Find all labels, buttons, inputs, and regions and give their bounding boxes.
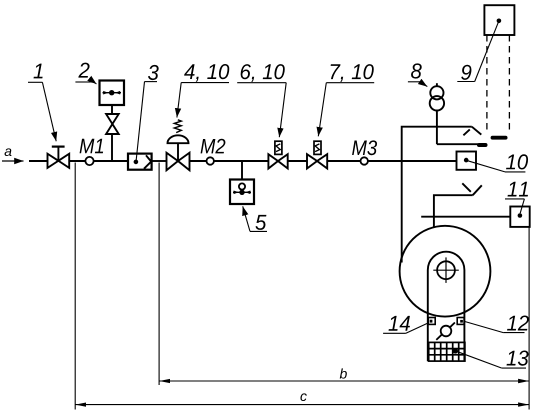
label 9 [461, 65, 471, 80]
extension line left c [74, 163, 76, 410]
wire main pipe segment 1 [29, 160, 48, 162]
flow arrow a [2, 160, 24, 162]
control box 11 [510, 207, 529, 227]
extension line right [528, 227, 530, 410]
label 5 [255, 215, 266, 230]
valve 1 [48, 147, 70, 168]
regulator valve 4 [167, 120, 190, 171]
wire igniter gas tube [437, 143, 478, 145]
node M3 [361, 157, 368, 164]
label 4, 10 [184, 64, 229, 82]
solenoid valve 7 [307, 141, 327, 168]
label M2 [201, 139, 226, 154]
label 6, 10 [241, 64, 285, 82]
label 7, 10 [331, 64, 374, 82]
wire valve to meter 2 [111, 105, 113, 114]
electrode block 12 [457, 318, 464, 325]
filter 3 [128, 154, 152, 170]
label 11 [508, 182, 528, 197]
label 3 [148, 65, 159, 80]
label a [5, 148, 12, 156]
igniter flame bend [472, 127, 482, 135]
wire main pipe segment 6 [327, 160, 456, 162]
label M3 [352, 140, 377, 155]
motor shaft crosshair [433, 257, 459, 283]
wire riser to igniter [402, 127, 472, 263]
burner tube [428, 252, 465, 362]
wire main pipe segment 2 [69, 160, 128, 162]
wire main pipe segment 4 [190, 160, 269, 162]
wire main pipe segment 3 [152, 160, 167, 162]
dimension c [75, 404, 529, 406]
igniter nozzle tip [479, 143, 486, 147]
meter U2 [100, 81, 125, 106]
igniter flame tick [463, 129, 469, 135]
label 12 [507, 315, 529, 330]
electrode tip [493, 136, 506, 140]
node M2 [207, 157, 214, 164]
node M1 [85, 157, 93, 165]
label 2 [78, 63, 89, 78]
label 8 [411, 63, 422, 78]
dimension b [159, 380, 529, 382]
wire high-voltage dashed leads [486, 35, 488, 134]
stabilizer grid 13 [429, 342, 465, 361]
valve under meter 2 [106, 114, 119, 134]
wire branch to meter 2 [111, 134, 113, 161]
extension line left b [158, 163, 160, 386]
fan scroll [400, 226, 491, 317]
label 13 [507, 350, 529, 365]
ignition transformer 9 [484, 5, 514, 35]
burner duct [434, 195, 473, 227]
burner flame tick [462, 183, 471, 192]
sight glass [436, 323, 455, 340]
label M1 [80, 139, 104, 153]
flame sensor 10 [457, 152, 477, 170]
burner flame bend [473, 185, 482, 195]
wire branch to device 5 [241, 161, 243, 180]
pressure gauge 8 [430, 83, 444, 144]
wire burner gas line [421, 216, 510, 218]
safety device 5 [230, 180, 254, 205]
label 10 [506, 154, 528, 169]
electrode block 14 [428, 318, 435, 325]
wire main pipe segment 5 [288, 160, 307, 162]
label 14 [389, 316, 410, 331]
solenoid valve 6 [268, 141, 287, 168]
label 1 [34, 64, 43, 79]
